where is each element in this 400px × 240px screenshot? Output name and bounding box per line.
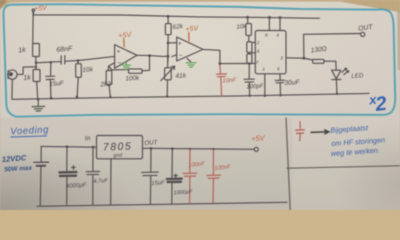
- svg-text:10nF: 10nF: [222, 78, 236, 85]
- svg-text:2k2: 2k2: [99, 81, 111, 89]
- svg-text:10k: 10k: [82, 66, 94, 74]
- svg-text:3: 3: [280, 55, 283, 61]
- svg-text:5: 5: [277, 67, 280, 73]
- svg-text:6: 6: [257, 48, 260, 54]
- svg-text:4: 4: [276, 33, 279, 39]
- svg-text:Voeding: Voeding: [10, 124, 49, 137]
- svg-text:15uF: 15uF: [151, 180, 165, 187]
- svg-text:1k: 1k: [23, 74, 31, 82]
- svg-text:+5V: +5V: [251, 133, 266, 143]
- svg-text:+5V: +5V: [34, 5, 49, 13]
- svg-text:+: +: [117, 49, 121, 56]
- svg-text:−: −: [179, 53, 183, 60]
- svg-text:1k: 1k: [18, 47, 26, 55]
- svg-text:12VDC: 12VDC: [2, 153, 28, 164]
- svg-text:7: 7: [256, 60, 259, 66]
- svg-text:62k: 62k: [172, 23, 184, 31]
- svg-text:15uF: 15uF: [49, 80, 65, 88]
- svg-text:7805: 7805: [103, 140, 133, 153]
- svg-text:LED: LED: [351, 72, 364, 80]
- svg-text:68nF: 68nF: [56, 46, 73, 54]
- svg-text:gnd: gnd: [113, 152, 123, 159]
- svg-text:2: 2: [256, 40, 260, 46]
- svg-text:30uF: 30uF: [284, 79, 300, 87]
- svg-text:4,7uF: 4,7uF: [93, 178, 108, 185]
- svg-text:100k: 100k: [125, 75, 140, 83]
- svg-text:1: 1: [262, 67, 265, 73]
- svg-text:+5V: +5V: [185, 23, 200, 33]
- svg-text:−: −: [118, 60, 122, 67]
- svg-text:8: 8: [265, 33, 268, 39]
- svg-text:100pF: 100pF: [246, 84, 264, 91]
- svg-text:OUT: OUT: [144, 139, 159, 147]
- svg-text:41k: 41k: [175, 72, 187, 80]
- svg-text:+: +: [178, 41, 182, 48]
- svg-text:10k: 10k: [236, 23, 247, 31]
- svg-text:In: In: [85, 135, 91, 142]
- svg-text:+5V: +5V: [118, 30, 133, 40]
